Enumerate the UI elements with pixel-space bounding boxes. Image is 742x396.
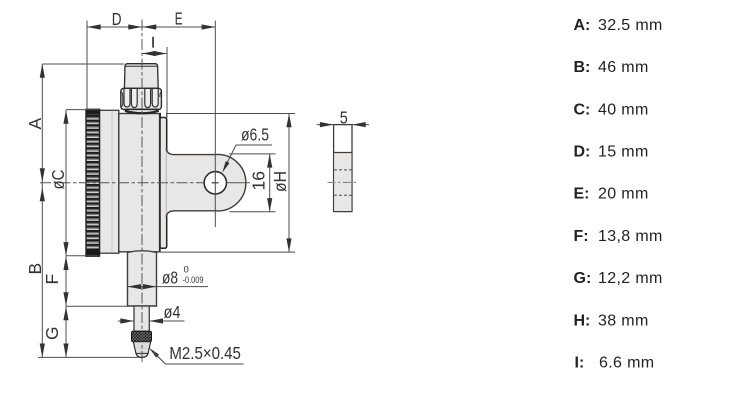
dimension 16 (269, 154, 271, 212)
arrows A (40, 64, 45, 182)
ø6.5 label and leader (222, 125, 272, 173)
stem ø8 (128, 251, 157, 306)
svg-text:H:: H: (574, 312, 591, 329)
svg-text:13,8 mm: 13,8 mm (598, 228, 663, 245)
svg-text:D:: D: (574, 144, 591, 161)
dimension G (65, 307, 67, 358)
svg-text:ø6.5: ø6.5 (241, 125, 269, 145)
svg-text:16: 16 (249, 171, 269, 190)
svg-text:E:: E: (574, 186, 590, 203)
svg-text:øH: øH (270, 171, 290, 192)
svg-text:-0.009: -0.009 (183, 275, 204, 286)
dimension I (142, 47, 167, 118)
svg-text:15 mm: 15 mm (598, 144, 649, 161)
svg-text:I:: I: (575, 355, 585, 372)
dimension A/B line (41, 64, 43, 357)
G bottom extension (38, 356, 139, 358)
dimension øH (288, 114, 290, 253)
svg-text:20 mm: 20 mm (598, 186, 649, 203)
svg-text:ø4: ø4 (164, 302, 181, 322)
øH top extension (167, 113, 295, 115)
svg-text:G: G (42, 326, 62, 340)
ø4 dimension (118, 302, 185, 324)
svg-text:B: B (25, 263, 45, 275)
lug hole vertical centerline / E extension (214, 21, 216, 228)
svg-text:A: A (25, 118, 45, 130)
svg-text:C:: C: (574, 101, 591, 118)
main body (119, 114, 160, 252)
svg-text:38 mm: 38 mm (598, 312, 649, 329)
lug (mounting ear) with hole (166, 148, 246, 217)
dimension øC line (65, 110, 67, 256)
M2.5x0.45 leader (149, 343, 244, 364)
F bottom extension (stem bottom) (66, 305, 128, 307)
svg-text:6.6 mm: 6.6 mm (599, 355, 654, 372)
svg-text:40 mm: 40 mm (598, 101, 649, 118)
contact nut (knurled) (132, 331, 152, 341)
øH bottom extension (158, 251, 295, 253)
dimension 5 (317, 107, 369, 127)
tab hidden lines (334, 170, 352, 195)
arrows D (87, 24, 215, 29)
svg-text:0: 0 (184, 265, 189, 276)
svg-text:F: F (42, 274, 62, 285)
tab outline (334, 125, 352, 212)
svg-text:øC: øC (48, 170, 68, 190)
hole ø6.5 in lug (204, 172, 226, 194)
tab centerline (328, 181, 359, 183)
arrows B (40, 188, 45, 358)
lug plate neck lines (159, 113, 161, 118)
svg-text:G:: G: (574, 270, 592, 287)
A top extension line (42, 63, 124, 65)
bezel knurl band (86, 109, 100, 256)
svg-text:E: E (175, 9, 183, 29)
svg-text:32.5 mm: 32.5 mm (598, 17, 663, 34)
bezel smooth ring (side) (100, 110, 119, 253)
svg-text:12,2 mm: 12,2 mm (598, 270, 663, 287)
svg-text:B:: B: (574, 59, 591, 76)
spindle ø4 (134, 306, 149, 331)
D left extension line (86, 21, 88, 111)
body right edge shadow (159, 114, 161, 251)
dimension D/E line (87, 26, 215, 28)
horizontal centerline (lug hole axis) (40, 182, 204, 184)
bezel inner step line (111, 111, 113, 253)
contact point cone (133, 342, 150, 358)
rear strip (lug plate edge) (160, 118, 167, 249)
label I (152, 37, 154, 48)
vertical centerline (spindle axis) (141, 20, 143, 365)
crown cap upper part (124, 64, 158, 89)
svg-text:M2.5×0.45: M2.5×0.45 (169, 343, 241, 363)
crown base collar (125, 109, 159, 113)
øC top extension (66, 109, 99, 111)
svg-text:F:: F: (574, 228, 589, 245)
svg-text:5: 5 (340, 107, 348, 127)
svg-text:A:: A: (574, 17, 591, 34)
svg-text:46 mm: 46 mm (598, 59, 649, 76)
øC bottom extension (66, 255, 99, 257)
crown knurled ring (121, 88, 162, 109)
dimension F (65, 256, 67, 306)
svg-text:ø8: ø8 (162, 268, 178, 288)
ø8 dimension with tolerance (128, 265, 209, 290)
svg-text:D: D (112, 9, 122, 29)
